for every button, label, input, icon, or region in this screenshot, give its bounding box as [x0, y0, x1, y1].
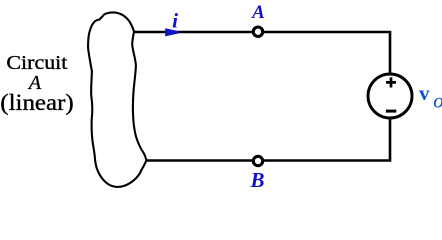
svg-text:B: B — [249, 168, 264, 192]
svg-text:v: v — [419, 81, 430, 105]
svg-text:(linear): (linear) — [0, 90, 74, 115]
svg-text:A: A — [251, 2, 265, 23]
svg-text:Circuit: Circuit — [6, 52, 67, 74]
svg-text:i: i — [172, 9, 178, 33]
svg-text:o: o — [433, 89, 442, 113]
